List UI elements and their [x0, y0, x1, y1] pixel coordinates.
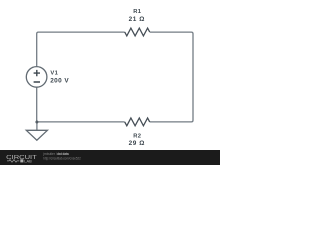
svg-text:dat data: dat data [57, 152, 69, 156]
wire: junction stub to ground [36, 122, 38, 130]
logo box [20, 159, 23, 162]
node junction (V1- / R2 / ground) [35, 121, 38, 124]
resistor R1 [125, 28, 150, 36]
resistor R2 [125, 118, 150, 126]
ground [26, 130, 47, 140]
wire: R2 left lead to junction [37, 121, 125, 123]
wire: V1+ up and top rail to R1 left lead [37, 32, 125, 66]
svg-text:21 Ω: 21 Ω [129, 16, 145, 23]
voltage source V1 (circle with + / - marks) [26, 67, 47, 88]
logo zigzag [7, 160, 19, 163]
svg-text:29 Ω: 29 Ω [129, 140, 145, 147]
svg-text:R2: R2 [133, 134, 141, 140]
wire: V1- down to junction [36, 87, 38, 122]
watermark band [0, 150, 220, 165]
svg-text:200 V: 200 V [50, 78, 69, 85]
svg-text:R1: R1 [133, 9, 142, 15]
svg-text:V1: V1 [50, 71, 58, 77]
svg-text:jmbutler /: jmbutler / [42, 152, 57, 156]
svg-text:http://circuitlab.com/cnse522: http://circuitlab.com/cnse522 [43, 157, 81, 161]
wire: R1 right lead, right rail down, bottom rail to R2 right lead [150, 32, 193, 122]
svg-text:LAB: LAB [24, 159, 32, 163]
